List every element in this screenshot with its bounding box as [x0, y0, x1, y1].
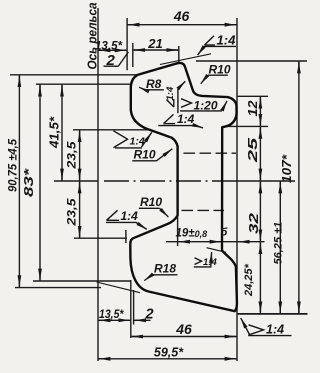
- arrow 23,5 upper top: [79, 131, 81, 137]
- svg-text:59,5*: 59,5*: [154, 346, 184, 360]
- text 1:4 vertical rotated: [165, 86, 176, 107]
- dimension line 107 x298.7: [298, 61, 300, 314]
- extension line bottom right y313.9: [237, 313, 308, 315]
- bottom slope tangent extension: [97, 282, 141, 293]
- arrow 25 bottom: [259, 173, 261, 180]
- label R10 head right: [201, 63, 231, 84]
- svg-text:1:4: 1:4: [130, 136, 145, 148]
- svg-text:R18: R18: [154, 262, 176, 276]
- arrow 6 right outside: [239, 241, 248, 243]
- dimension line 90,75 vertical x19: [18, 75, 20, 288]
- svg-text:83*: 83*: [21, 168, 36, 197]
- extension line x178.8 top for 21: [178, 46, 180, 62]
- dimension shaft 2 bottom: [134, 319, 151, 321]
- extension line x132.8 top: [132, 43, 134, 67]
- svg-text:R10: R10: [134, 148, 156, 162]
- label R10 web left lower: [139, 195, 169, 217]
- slope marker 1:4 foot top left: [106, 210, 147, 229]
- svg-text:1:4: 1:4: [217, 33, 237, 48]
- arrow 83 top: [39, 86, 41, 92]
- arrow 13,5 top right: [119, 49, 126, 51]
- label R8: [139, 77, 164, 91]
- svg-text:1:20: 1:20: [194, 99, 218, 113]
- svg-text:21: 21: [147, 36, 162, 51]
- dimension line 19 and 6 y241.7: [166, 241, 265, 243]
- svg-text:25: 25: [246, 136, 260, 164]
- slope marker 1:4 top right: [160, 36, 236, 65]
- center line y181 dashed middle: [104, 180, 222, 182]
- arrow 13,5 bottom right: [123, 319, 129, 321]
- svg-text:2: 2: [145, 307, 154, 323]
- arrow 21 right: [171, 49, 177, 51]
- arrow 46 bottom right: [229, 336, 236, 338]
- dimension stack line x260.4 right: [259, 96, 261, 314]
- svg-text:Ось рельса: Ось рельса: [85, 3, 100, 70]
- dimension line 13,5 bottom y319.8: [98, 319, 131, 321]
- center line y181 solid left part: [54, 180, 98, 182]
- arrow 59,5 right: [229, 358, 236, 360]
- svg-text:13,5*: 13,5*: [99, 307, 125, 321]
- arrow 56,25 bottom: [279, 305, 281, 313]
- center line y181 solid right part: [222, 180, 295, 182]
- dimension line 41,5 vertical x62: [61, 84, 63, 181]
- dimension line 23,5 pair vertical x79.6: [79, 130, 81, 238]
- arrow 107 bottom: [298, 305, 300, 313]
- extension line y130 head underside left: [73, 129, 151, 131]
- arrow 32 top: [259, 182, 261, 189]
- arrow 23,5 upper bottom: [79, 173, 81, 180]
- svg-text:2: 2: [106, 52, 116, 69]
- slope marker 1:4 left underside: [114, 131, 152, 148]
- underline of label 2 top: [104, 65, 119, 67]
- dimension line 56,25 x280.3: [279, 181, 281, 314]
- extension line right y60.5 rail top: [196, 60, 307, 62]
- arrow 107 top: [298, 62, 300, 68]
- extension line web left for 19 dim: [177, 217, 179, 246]
- arrow 23,5 lower top: [79, 182, 81, 189]
- arrow 56,25 top: [279, 182, 281, 189]
- arrow 46 top right: [229, 24, 236, 26]
- svg-text:107*: 107*: [280, 154, 294, 183]
- arrow 90,75 top: [18, 76, 20, 83]
- svg-text:24,25*: 24,25*: [243, 263, 255, 297]
- svg-text:1:4: 1:4: [203, 257, 217, 268]
- svg-text:90,75 ±4,5: 90,75 ±4,5: [8, 138, 20, 192]
- arrow 12 top: [259, 98, 261, 104]
- extension line x127 top: [126, 18, 128, 70]
- extension line right y126.4: [224, 125, 269, 127]
- svg-text:1:4: 1:4: [165, 86, 176, 100]
- arrow 21 left: [134, 49, 140, 51]
- extension line head top left y75: [10, 74, 137, 76]
- dimension line 59,5 y358.8: [98, 358, 237, 360]
- arrow 46 bottom left: [132, 336, 139, 338]
- arrow 12 bottom: [259, 119, 261, 125]
- extension line foot top left y238: [74, 237, 127, 239]
- extension line right y97.5: [237, 95, 268, 97]
- arrow 41,5 top: [61, 86, 63, 92]
- extension line x134.4 bottom for 2: [133, 290, 135, 325]
- svg-text:1:4: 1:4: [177, 112, 195, 126]
- label R18: [144, 262, 177, 281]
- dimension line 21 y50: [133, 49, 179, 51]
- arrow 46 top left: [129, 24, 136, 26]
- svg-text:23,5: 23,5: [65, 141, 79, 170]
- extension line y84: [36, 83, 131, 85]
- leader of label 2 top: [118, 52, 128, 66]
- hidden dashed line y153 web: [184, 152, 237, 154]
- dimension line 13,5 top y50.3: [98, 49, 127, 51]
- arrow 19 right: [213, 241, 221, 243]
- arrow 24,25 top: [259, 243, 261, 250]
- svg-text:46: 46: [173, 8, 190, 24]
- extension line x237 long vertical: [236, 18, 238, 361]
- dimension line 83 vertical x40: [39, 84, 41, 281]
- extension line x130.8 bottom: [130, 280, 132, 338]
- slope marker 1:4 bottom right: [241, 318, 292, 336]
- slope marker 1:4 vertical head right face: [178, 81, 185, 113]
- arrow 83 bottom: [39, 273, 41, 280]
- svg-text:1:4: 1:4: [266, 323, 284, 337]
- svg-text:13,5*: 13,5*: [95, 39, 123, 53]
- slope marker 1:20: [180, 99, 227, 111]
- arrow 13,5 top left: [99, 49, 106, 51]
- extension line lowest y287: [15, 287, 101, 289]
- hidden dashed line y210 web: [182, 209, 225, 211]
- svg-text:12: 12: [246, 100, 260, 116]
- arrow 25 top: [259, 128, 261, 133]
- label R10 web left upper: [132, 148, 172, 162]
- arrow 32 bottom: [259, 233, 261, 240]
- rail profile outline: [130, 63, 237, 311]
- svg-text:46: 46: [175, 321, 192, 337]
- arrow 90,75 bottom: [18, 279, 20, 286]
- slope marker 1:4 near 19 dim: [194, 248, 226, 267]
- svg-text:R10: R10: [209, 63, 231, 77]
- svg-text:23,5: 23,5: [65, 198, 79, 227]
- extension line foot bottom left y281: [33, 280, 131, 282]
- svg-text:32: 32: [246, 212, 261, 234]
- slope marker 1:4 mid head underside: [158, 114, 203, 128]
- svg-text:56,25 ±1: 56,25 ±1: [273, 222, 285, 265]
- dimension line 46 bottom y336: [131, 336, 237, 338]
- svg-text:19±0,8: 19±0,8: [176, 228, 208, 240]
- arrow 41,5 bottom: [61, 173, 63, 180]
- rail axis line: [97, 8, 99, 361]
- arrow 19 left: [179, 241, 186, 243]
- svg-text:б: б: [221, 227, 229, 239]
- arrow 24,25 bottom: [259, 305, 261, 313]
- svg-text:1:4: 1:4: [121, 209, 139, 223]
- short tick near foot left corner: [125, 230, 127, 243]
- svg-text:R8: R8: [146, 77, 162, 91]
- svg-text:R10: R10: [140, 195, 162, 209]
- dimension line 46 top y24.7: [127, 24, 237, 26]
- arrow 59,5 left: [99, 358, 106, 360]
- arrow 2 bottom: [135, 319, 146, 321]
- svg-text:41,5*: 41,5*: [48, 116, 62, 149]
- arrow 23,5 lower bottom: [79, 230, 81, 237]
- arrow 13,5 bottom left: [99, 319, 106, 321]
